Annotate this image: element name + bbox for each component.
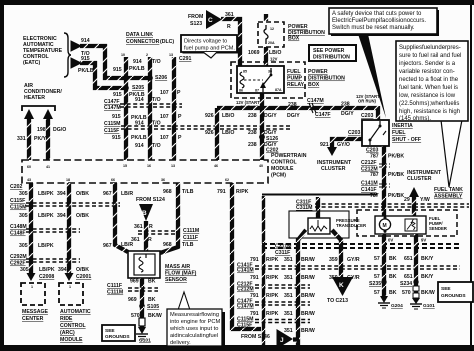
svg-text:S234: S234: [400, 281, 412, 287]
svg-text:T/LB: T/LB: [182, 242, 194, 248]
wire labels row3: [19, 243, 112, 249]
wire 969 BK below MAF: [130, 278, 156, 304]
svg-text:394: 394: [58, 267, 67, 273]
svg-text:915: 915: [112, 114, 121, 120]
svg-text:1: 1: [69, 285, 71, 289]
svg-text:C2008: C2008: [39, 274, 54, 280]
wire labels row2: [19, 213, 89, 219]
svg-text:O/BK: O/BK: [76, 267, 89, 273]
svg-text:305: 305: [19, 213, 28, 219]
svg-text:FUEL TANK: FUEL TANK: [434, 187, 463, 193]
svg-text:914: 914: [135, 143, 144, 149]
svg-text:C311M: C311M: [296, 205, 312, 211]
wire into inertia switch: [376, 106, 380, 120]
powertrain control module PCM box: [22, 160, 268, 183]
svg-text:RIDE: RIDE: [60, 316, 73, 322]
triangle B from S124: [136, 197, 165, 221]
ladder row2 labels: [250, 275, 315, 281]
svg-text:BK: BK: [389, 290, 397, 296]
wire 915 PK/LB to EATC: [71, 56, 126, 88]
callout: supplies fuel under pressure: [396, 41, 468, 187]
node S205: [123, 85, 129, 91]
svg-text:238: 238: [248, 113, 257, 119]
wire 29 Y/W with up arrow: [404, 187, 430, 218]
svg-text:C202: C202: [10, 184, 23, 190]
label 967 LB/R lower: [121, 242, 133, 248]
svg-text:R: R: [227, 24, 231, 30]
svg-text:SENSOR: SENSOR: [165, 277, 187, 283]
svg-text:394: 394: [57, 213, 66, 219]
svg-text:C203: C203: [361, 113, 374, 119]
svg-text:40: 40: [259, 164, 263, 168]
triangle K to C213: [327, 277, 353, 304]
callout: measures air flowing: [167, 292, 225, 346]
svg-text:C147M: C147M: [237, 304, 254, 310]
svg-text:P: P: [177, 90, 181, 96]
svg-text:57: 57: [374, 274, 380, 280]
svg-text:C148M: C148M: [10, 224, 27, 230]
svg-text:C212F: C212F: [361, 160, 377, 166]
svg-text:915: 915: [81, 56, 90, 62]
connector C147F/C147M: [104, 99, 182, 111]
connector C111M/C111F mid: [138, 228, 199, 241]
svg-text:P: P: [178, 114, 182, 120]
wire 305 LB/PK (PCM to message center): [29, 183, 33, 274]
svg-text:S235: S235: [369, 281, 381, 287]
svg-text:651: 651: [404, 256, 413, 262]
svg-text:12V: 12V: [270, 57, 278, 62]
module label data link connector: [126, 32, 174, 45]
svg-text:C292M: C292M: [10, 254, 27, 260]
triangle C from S123: [188, 10, 222, 29]
see grounds box left: [102, 325, 135, 341]
svg-text:107: 107: [160, 114, 169, 120]
svg-text:LB/PK: LB/PK: [38, 213, 54, 219]
svg-text:926: 926: [205, 113, 214, 119]
svg-text:fuel pump and PCM.: fuel pump and PCM.: [184, 46, 235, 52]
svg-text:DG/O: DG/O: [53, 127, 66, 133]
svg-text:MODULE: MODULE: [271, 166, 294, 172]
inertia fuel shut-off switch box: [362, 120, 389, 146]
svg-text:C291: C291: [179, 56, 192, 62]
wire 968 T/LB (PCM to MAF): [160, 183, 194, 253]
svg-text:GROUNDS: GROUNDS: [105, 334, 130, 340]
svg-text:PK/LB: PK/LB: [131, 135, 147, 141]
svg-text:R/PK: R/PK: [266, 293, 279, 299]
svg-text:J: J: [280, 337, 284, 344]
svg-text:O/BK: O/BK: [76, 213, 89, 219]
svg-text:60: 60: [27, 165, 31, 169]
node S126: [248, 134, 279, 153]
svg-text:18: 18: [66, 178, 70, 182]
svg-text:B: B: [142, 210, 147, 217]
svg-text:15: 15: [123, 164, 127, 168]
fuel tank assembly dashed box: [357, 210, 457, 236]
svg-text:351: 351: [284, 257, 293, 263]
wire 791 R/PK (PCM down): [217, 183, 261, 329]
pressure transducer outline: [289, 211, 349, 238]
connector C147M/C147F on 238 run: [307, 98, 331, 118]
wire 915 PK/LB (DLC pin10 to PCM): [124, 57, 128, 160]
instrument cluster outline: [262, 195, 377, 346]
svg-text:BK: BK: [389, 274, 397, 280]
svg-text:0V: 0V: [388, 238, 393, 243]
wire 361 R from C to relay: [221, 12, 240, 66]
svg-text:C141M: C141M: [237, 268, 254, 274]
message center box: [21, 283, 48, 322]
svg-text:R/PK: R/PK: [236, 189, 249, 195]
ground G204: [378, 296, 403, 309]
module label MAF sensor: [165, 264, 197, 283]
svg-text:969: 969: [128, 297, 137, 303]
power distribution box (fuse) dashed: [258, 22, 284, 47]
wire 914 T/O (DLC pin2 to PCM): [148, 57, 152, 160]
module label air conditioner/heater: [24, 83, 62, 101]
svg-text:PK/BK: PK/BK: [388, 193, 404, 199]
svg-text:57: 57: [374, 256, 380, 262]
svg-text:305: 305: [19, 191, 28, 197]
wire 1069 LB/O fuse to relay: [248, 14, 281, 66]
svg-text:LB/O: LB/O: [222, 113, 234, 119]
svg-text:9V: 9V: [421, 238, 426, 243]
module label fuel pump relay: [287, 69, 305, 88]
svg-text:238: 238: [248, 142, 257, 148]
svg-text:C115F: C115F: [237, 323, 252, 329]
svg-text:C148F: C148F: [10, 231, 26, 237]
module label PCM: [271, 153, 307, 179]
svg-text:BOX: BOX: [288, 36, 300, 42]
svg-text:CONNECTOR: CONNECTOR: [126, 39, 160, 45]
svg-text:C203: C203: [348, 130, 361, 136]
svg-text:BK/W: BK/W: [148, 313, 162, 319]
svg-text:PK/BK: PK/BK: [388, 154, 404, 160]
svg-text:O/BK: O/BK: [76, 191, 89, 197]
svg-text:into engine for PCM: into engine for PCM: [170, 319, 221, 325]
svg-text:M: M: [383, 223, 387, 229]
svg-text:361: 361: [134, 224, 143, 230]
svg-text:T/O: T/O: [152, 97, 161, 103]
svg-text:A safety device that cuts powe: A safety device that cuts power to: [332, 11, 422, 17]
ladder row1 labels: [250, 257, 315, 263]
svg-text:Measuresairflowing: Measuresairflowing: [170, 312, 219, 318]
triangle J from S146: [241, 329, 293, 349]
svg-text:MESSAGE: MESSAGE: [22, 309, 48, 315]
see power distribution box: [309, 45, 356, 61]
wire 651 BK/Y + 570 BK/W (sender ground): [400, 234, 435, 298]
svg-text:LB/PK: LB/PK: [39, 267, 55, 273]
wire 787 PK/BK below switch: [366, 146, 404, 216]
svg-text:PK/Y: PK/Y: [34, 136, 47, 142]
svg-text:K: K: [339, 282, 344, 289]
svg-text:ElectricFuelPumpifacollisionoc: ElectricFuelPumpifacollisionoccurs.: [332, 18, 426, 24]
svg-text:331: 331: [17, 136, 26, 142]
svg-text:Suppliesfuelunderpres-: Suppliesfuelunderpres-: [399, 45, 461, 51]
svg-text:FROM S146: FROM S146: [241, 334, 270, 340]
svg-text:107: 107: [160, 135, 169, 141]
svg-text:LB/O: LB/O: [269, 50, 281, 56]
svg-text:C111M: C111M: [107, 290, 123, 296]
connector C115M/C115F ladder: [237, 317, 310, 329]
svg-text:LB/PK: LB/PK: [38, 191, 54, 197]
svg-text:BK/Y: BK/Y: [421, 274, 434, 280]
svg-text:1: 1: [31, 285, 33, 289]
svg-text:12: 12: [270, 27, 274, 31]
svg-text:HEATER: HEATER: [24, 95, 45, 101]
svg-text:16: 16: [147, 164, 151, 168]
wire 359 GY/R from transducer to K: [329, 230, 360, 281]
relay box: [237, 66, 284, 93]
svg-text:921: 921: [320, 142, 329, 148]
ladder row3 labels: [250, 293, 315, 299]
svg-text:C141M: C141M: [361, 181, 378, 187]
svg-text:low, resistance is low: low, resistance is low: [399, 93, 456, 99]
svg-text:85: 85: [243, 70, 247, 74]
svg-text:CONTROL: CONTROL: [271, 160, 297, 166]
svg-text:238: 238: [288, 102, 297, 108]
svg-text:Switch must be reset manually.: Switch must be reset manually.: [332, 25, 415, 31]
svg-text:967: 967: [103, 243, 112, 249]
svg-text:361: 361: [225, 12, 234, 18]
12V start or run label right: [356, 94, 380, 104]
svg-text:SEE: SEE: [105, 328, 115, 334]
svg-text:CLUSTER: CLUSTER: [407, 176, 432, 182]
svg-text:968: 968: [163, 189, 172, 195]
svg-text:S123: S123: [190, 21, 202, 27]
svg-text:aidincalculatingfuel: aidincalculatingfuel: [170, 333, 218, 339]
svg-text:Y/W: Y/W: [420, 197, 430, 203]
svg-text:107: 107: [160, 90, 169, 96]
svg-text:968: 968: [163, 242, 172, 248]
wire labels row1: [19, 191, 133, 197]
svg-text:BK: BK: [148, 279, 156, 285]
connector C212F/C212M: [361, 160, 404, 178]
svg-text:nected to a float in the: nected to a float in the: [399, 77, 459, 83]
ground G101 right: [410, 298, 435, 309]
callout: safety device: [329, 8, 439, 118]
svg-text:791: 791: [250, 275, 259, 281]
svg-text:DG/Y: DG/Y: [341, 111, 354, 117]
svg-text:(DLC): (DLC): [160, 39, 174, 45]
svg-text:S205: S205: [132, 85, 144, 91]
wire 361 R (B to MAF): [131, 221, 153, 256]
svg-text:MODULE: MODULE: [60, 337, 83, 343]
svg-text:787: 787: [370, 172, 379, 178]
svg-text:(145 ohms).: (145 ohms).: [399, 116, 431, 122]
svg-text:305: 305: [20, 267, 29, 273]
svg-text:66: 66: [111, 178, 115, 182]
svg-text:GROUNDS: GROUNDS: [441, 293, 466, 299]
svg-text:(EATC): (EATC): [23, 60, 40, 66]
svg-text:sure to fuel rail and fuel: sure to fuel rail and fuel: [399, 53, 461, 59]
connector bus rows: [262, 244, 460, 248]
svg-text:GY/O: GY/O: [337, 142, 350, 148]
svg-text:915: 915: [113, 67, 122, 73]
svg-text:570: 570: [402, 290, 411, 296]
svg-text:injectors. Sender is a: injectors. Sender is a: [399, 61, 456, 67]
svg-text:which uses input to: which uses input to: [169, 326, 218, 332]
svg-text:359: 359: [329, 257, 338, 263]
svg-text:C147F: C147F: [315, 112, 331, 118]
svg-text:351: 351: [284, 311, 293, 317]
svg-text:high, resistance is high: high, resistance is high: [399, 109, 460, 115]
svg-text:S206: S206: [155, 75, 167, 81]
svg-text:OR RUN): OR RUN): [358, 99, 377, 104]
svg-text:C115M: C115M: [10, 205, 26, 211]
svg-text:POWER: POWER: [308, 69, 328, 75]
svg-text:914: 914: [81, 38, 90, 44]
module label inertia fuel shut-off: [392, 123, 421, 143]
svg-text:13: 13: [169, 53, 173, 57]
brace for EATC: [64, 33, 71, 77]
svg-text:C115M: C115M: [104, 121, 120, 127]
svg-text:86: 86: [239, 89, 243, 93]
svg-text:FROM: FROM: [188, 14, 203, 20]
svg-text:43: 43: [27, 178, 31, 182]
svg-text:BOX: BOX: [308, 82, 320, 88]
svg-text:CENTER: CENTER: [22, 316, 44, 322]
svg-text:29: 29: [404, 197, 410, 203]
svg-text:87A: 87A: [275, 88, 282, 92]
svg-text:CONTROL: CONTROL: [60, 323, 86, 329]
svg-text:238: 238: [341, 102, 350, 108]
svg-text:R/PK: R/PK: [266, 275, 279, 281]
svg-text:C147M: C147M: [104, 105, 121, 111]
svg-text:914: 914: [135, 97, 144, 103]
svg-text:(ARC): (ARC): [60, 330, 75, 336]
svg-text:87: 87: [255, 89, 259, 93]
connector C115M/C115F: [104, 121, 290, 134]
wire labels upper DLC: [113, 59, 181, 103]
node S206: [147, 75, 153, 81]
see grounds box right: [438, 282, 473, 302]
svg-text:BK/W: BK/W: [421, 290, 435, 296]
svg-text:fuel tank. When fuel is: fuel tank. When fuel is: [399, 85, 458, 91]
wire 967 LB/R (PCM to MAF): [115, 183, 128, 252]
svg-text:G101: G101: [139, 338, 151, 344]
svg-text:787: 787: [370, 154, 379, 160]
svg-text:10: 10: [121, 53, 125, 57]
svg-text:R/PK: R/PK: [266, 257, 279, 263]
wire labels row4 + C2008/C2001: [20, 267, 91, 280]
callout: directs voltage: [181, 35, 239, 58]
svg-text:TRANSDUCER: TRANSDUCER: [336, 223, 367, 228]
svg-text:C: C: [208, 17, 213, 24]
svg-text:R: R: [148, 237, 152, 243]
svg-text:351: 351: [284, 328, 293, 334]
svg-text:C111F: C111F: [183, 235, 198, 241]
svg-text:C311F: C311F: [275, 250, 290, 256]
svg-text:915: 915: [112, 135, 121, 141]
wire labels lower DLC: [112, 135, 182, 149]
svg-text:351: 351: [284, 293, 293, 299]
svg-text:967: 967: [103, 191, 112, 197]
svg-text:LB/R: LB/R: [121, 191, 133, 197]
svg-text:variable resistor con-: variable resistor con-: [399, 69, 455, 75]
svg-text:(22.5ohms);whenfuelis: (22.5ohms);whenfuelis: [399, 101, 459, 107]
svg-text:LB/R: LB/R: [121, 242, 133, 248]
svg-text:41: 41: [46, 165, 50, 169]
svg-text:T/O: T/O: [152, 59, 161, 65]
svg-text:DISTRIBUTION: DISTRIBUTION: [313, 55, 350, 61]
module label EATC: [23, 36, 63, 66]
connector C147F/C147M ladder: [237, 299, 310, 310]
svg-text:570: 570: [131, 313, 140, 319]
svg-text:36: 36: [161, 178, 165, 182]
12V start or run label: [236, 100, 260, 110]
module label instrument cluster right: [407, 170, 442, 182]
mass air flow sensor box: [128, 251, 160, 278]
svg-text:C292F: C292F: [10, 261, 26, 267]
svg-text:GY/R: GY/R: [347, 257, 360, 263]
arrow up wire 331 PK/Y: [17, 109, 47, 160]
module label power distribution box: [288, 24, 325, 42]
wire 914 T/O to EATC: [71, 38, 148, 78]
wire stub into pressure transducer: [316, 197, 320, 220]
svg-text:INERTIA: INERTIA: [392, 123, 413, 129]
wire 107 P (DLC pin13 to PCM): [172, 57, 176, 160]
svg-text:651: 651: [404, 274, 413, 280]
svg-text:S105: S105: [147, 304, 159, 310]
svg-text:57: 57: [374, 290, 380, 296]
wire 926 LB/O labels: [205, 113, 234, 136]
node C311M/C311F ladder top: [272, 241, 296, 257]
svg-text:FUEL: FUEL: [392, 130, 406, 136]
svg-text:198: 198: [37, 127, 46, 133]
svg-text:P: P: [178, 135, 182, 141]
svg-text:SENDER: SENDER: [429, 226, 448, 231]
svg-text:BK: BK: [389, 256, 397, 262]
svg-text:PK/LB: PK/LB: [78, 68, 94, 74]
svg-text:T/O: T/O: [152, 143, 161, 149]
svg-text:DATA LINK: DATA LINK: [126, 32, 153, 38]
svg-text:G204: G204: [391, 303, 403, 309]
wire 921 GY/O to instrument cluster: [320, 130, 362, 156]
wire labels mid DLC: [112, 114, 182, 127]
connector C141M/C141F: [361, 181, 404, 200]
svg-text:791: 791: [217, 189, 226, 195]
connector C148M/C148F: [10, 224, 80, 237]
svg-text:CLUSTER: CLUSTER: [321, 166, 346, 172]
connector C141F/C141M ladder: [237, 263, 460, 274]
svg-text:C115F: C115F: [104, 128, 119, 134]
wire 351 BR/W vertical: [296, 238, 300, 345]
svg-text:FROM S124: FROM S124: [136, 197, 165, 203]
svg-text:C115F: C115F: [10, 198, 25, 204]
svg-text:20A: 20A: [268, 41, 275, 45]
module label instrument cluster left: [317, 160, 352, 172]
svg-text:62: 62: [225, 178, 229, 182]
connector C111F/C111M lower: [107, 283, 158, 303]
svg-text:926: 926: [205, 130, 214, 136]
svg-text:DG/Y: DG/Y: [287, 113, 300, 119]
ladder row4 labels: [250, 311, 315, 317]
svg-text:RELAY: RELAY: [287, 82, 305, 88]
svg-text:DISTRIBUTION: DISTRIBUTION: [308, 76, 345, 82]
svg-text:PK/BK: PK/BK: [388, 172, 404, 178]
node C311F/C311M upper: [296, 200, 469, 212]
pressure transducer: [308, 218, 367, 234]
wire 570 BK/W to ground: [131, 306, 162, 327]
svg-text:R: R: [149, 224, 153, 230]
svg-text:SHUT - OFF: SHUT - OFF: [392, 137, 421, 143]
connector C292M/C292F: [10, 254, 80, 267]
svg-text:238: 238: [248, 130, 257, 136]
svg-text:ASSEMBLY: ASSEMBLY: [434, 194, 463, 200]
connector C212F/C212M ladder: [237, 282, 310, 293]
svg-text:DG/Y: DG/Y: [264, 113, 277, 119]
svg-text:BR/W: BR/W: [301, 257, 315, 263]
svg-text:C111M: C111M: [183, 228, 199, 234]
